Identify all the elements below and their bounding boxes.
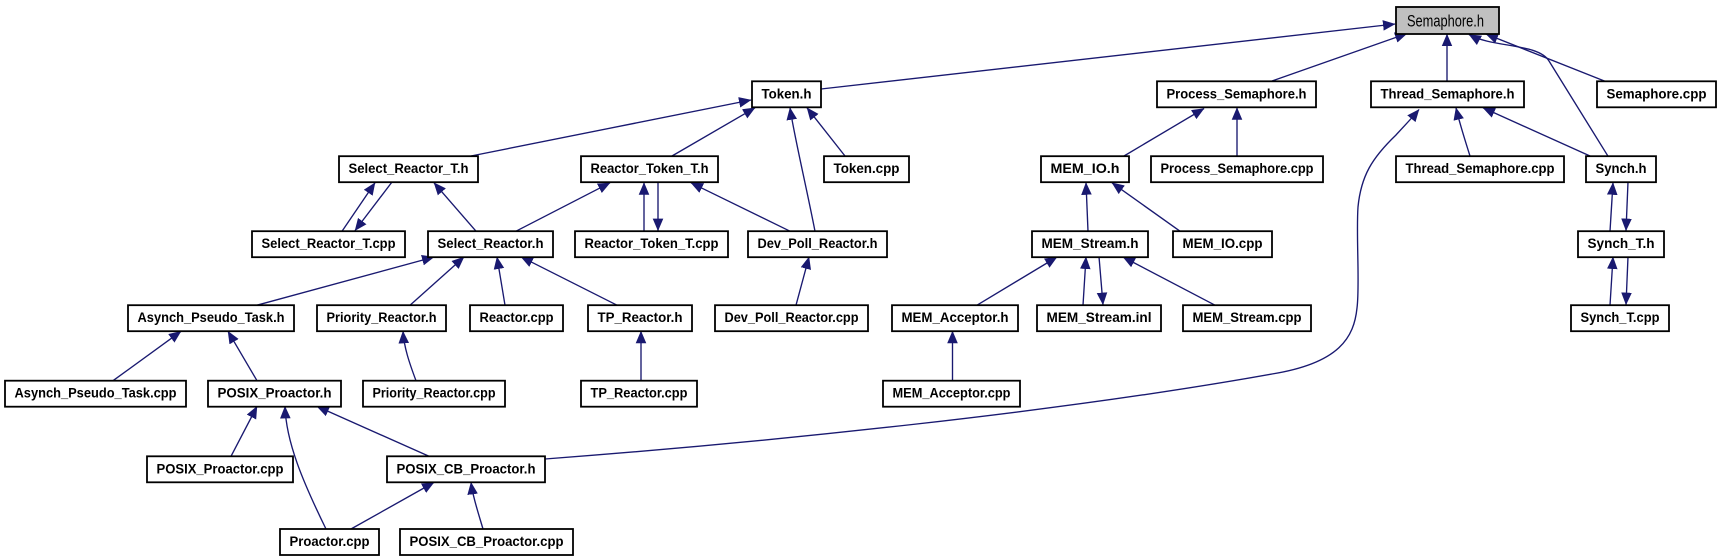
node MEM_Stream.h [1032, 231, 1148, 257]
edge MEM_Stream.inl -> MEM_Stream.h [1083, 257, 1086, 305]
node Token.cpp [824, 156, 909, 182]
node Asynch_Pseudo_Task.h [128, 305, 294, 331]
edge MEM_IO.h -> Process_Semaphore.h [1124, 109, 1204, 157]
node Priority_Reactor.h [317, 305, 446, 331]
edge Select_Reactor.h -> Select_Reactor_T.h [434, 183, 476, 231]
edge Semaphore.cpp -> Semaphore.h [1486, 34, 1605, 81]
svg-text:Reactor_Token_T.h: Reactor_Token_T.h [591, 161, 709, 176]
svg-text:Semaphore.cpp: Semaphore.cpp [1607, 86, 1707, 101]
edge Process_Semaphore.cpp -> Process_Semaphore.h [1236, 108, 1238, 156]
edge Thread_Semaphore.cpp -> Thread_Semaphore.h [1456, 108, 1470, 156]
node MEM_Acceptor.h [892, 305, 1018, 331]
edge Select_Reactor.h -> Reactor_Token_T.h [516, 183, 610, 231]
edge POSIX_CB_Proactor.h -> Thread_Semaphore.h [545, 110, 1419, 460]
svg-text:Token.cpp: Token.cpp [834, 161, 900, 176]
node Thread_Semaphore.cpp [1396, 156, 1564, 182]
edge Token.h -> Semaphore.h [821, 24, 1395, 89]
node TP_Reactor.h [588, 305, 692, 331]
node Reactor.cpp [470, 305, 563, 331]
edge Reactor_Token_T.h -> Token.h [672, 108, 755, 156]
svg-text:MEM_Acceptor.h: MEM_Acceptor.h [902, 310, 1009, 325]
svg-text:Proactor.cpp: Proactor.cpp [290, 534, 370, 549]
node Semaphore.cpp [1597, 81, 1716, 107]
edge Synch.h -> Semaphore.h [1469, 35, 1608, 157]
svg-text:MEM_Acceptor.cpp: MEM_Acceptor.cpp [893, 386, 1011, 401]
edge Reactor_Token_T.h -> Reactor_Token_T.cpp [657, 182, 659, 231]
edge MEM_Stream.h -> MEM_Stream.inl [1099, 257, 1103, 305]
svg-text:Synch.h: Synch.h [1596, 161, 1647, 176]
node POSIX_CB_Proactor.cpp [400, 529, 573, 555]
svg-text:Process_Semaphore.h: Process_Semaphore.h [1167, 86, 1307, 101]
node POSIX_CB_Proactor.h [387, 456, 545, 482]
node Reactor_Token_T.cpp [575, 231, 728, 257]
edge Process_Semaphore.h -> Semaphore.h [1272, 34, 1407, 82]
node Thread_Semaphore.h [1371, 81, 1524, 107]
svg-text:MEM_Stream.cpp: MEM_Stream.cpp [1193, 310, 1302, 325]
svg-text:Select_Reactor.h: Select_Reactor.h [438, 236, 544, 251]
edge MEM_Acceptor.cpp -> MEM_Acceptor.h [952, 331, 954, 380]
node POSIX_Proactor.cpp [147, 456, 293, 482]
edge Reactor_Token_T.cpp -> Reactor_Token_T.h [643, 183, 645, 231]
edge POSIX_Proactor.cpp -> POSIX_Proactor.h [231, 406, 257, 456]
edge Proactor.cpp -> POSIX_CB_Proactor.h [351, 482, 434, 529]
edge Asynch_Pseudo_Task.cpp -> Asynch_Pseudo_Task.h [113, 331, 181, 380]
svg-text:POSIX_CB_Proactor.cpp: POSIX_CB_Proactor.cpp [410, 534, 564, 549]
edge Synch_T.h -> Synch.h [1610, 183, 1613, 231]
edge MEM_Stream.h -> MEM_IO.h [1086, 183, 1088, 231]
node Process_Semaphore.cpp [1151, 156, 1323, 182]
svg-text:Select_Reactor_T.cpp: Select_Reactor_T.cpp [262, 236, 396, 251]
svg-text:POSIX_Proactor.h: POSIX_Proactor.h [218, 386, 332, 401]
svg-text:Thread_Semaphore.h: Thread_Semaphore.h [1381, 86, 1515, 101]
node POSIX_Proactor.h [208, 381, 341, 407]
node Asynch_Pseudo_Task.cpp [5, 381, 186, 407]
node MEM_IO.cpp [1173, 231, 1272, 257]
edge Priority_Reactor.h -> Select_Reactor.h [410, 257, 464, 305]
edge Priority_Reactor.cpp -> Priority_Reactor.h [403, 331, 416, 380]
edge Synch.h -> Synch_T.h [1626, 182, 1628, 231]
node Synch.h [1586, 156, 1656, 182]
svg-text:POSIX_CB_Proactor.h: POSIX_CB_Proactor.h [397, 461, 536, 476]
node Select_Reactor_T.h [339, 156, 478, 182]
svg-text:Asynch_Pseudo_Task.cpp: Asynch_Pseudo_Task.cpp [15, 386, 177, 401]
node Synch_T.cpp [1571, 305, 1669, 331]
edge Select_Reactor_T.h -> Token.h [471, 100, 751, 156]
node Priority_Reactor.cpp [363, 381, 505, 407]
svg-text:Dev_Poll_Reactor.h: Dev_Poll_Reactor.h [758, 236, 878, 251]
svg-text:Synch_T.cpp: Synch_T.cpp [1581, 310, 1660, 325]
node Select_Reactor.h [428, 231, 553, 257]
svg-text:MEM_IO.cpp: MEM_IO.cpp [1183, 236, 1263, 251]
edge Thread_Semaphore.h -> Semaphore.h [1446, 34, 1448, 81]
node Dev_Poll_Reactor.cpp [715, 305, 868, 331]
svg-text:Synch_T.h: Synch_T.h [1588, 236, 1655, 251]
edge Dev_Poll_Reactor.h -> Token.h [790, 108, 815, 231]
edge TP_Reactor.cpp -> TP_Reactor.h [640, 331, 642, 380]
edge Dev_Poll_Reactor.cpp -> Dev_Poll_Reactor.h [796, 257, 809, 305]
svg-text:Dev_Poll_Reactor.cpp: Dev_Poll_Reactor.cpp [725, 310, 859, 325]
edge POSIX_CB_Proactor.h -> POSIX_Proactor.h [317, 406, 429, 456]
node Semaphore.h [1396, 7, 1499, 34]
node TP_Reactor.cpp [581, 381, 697, 407]
edge Token.cpp -> Token.h [807, 108, 845, 156]
svg-text:POSIX_Proactor.cpp: POSIX_Proactor.cpp [157, 461, 284, 476]
node Reactor_Token_T.h [581, 156, 718, 182]
node MEM_Stream.inl [1037, 305, 1161, 331]
edge Select_Reactor_T.cpp -> Select_Reactor_T.h [342, 183, 375, 231]
node Synch_T.h [1578, 231, 1664, 257]
edge Dev_Poll_Reactor.h -> Reactor_Token_T.h [691, 183, 790, 231]
edge MEM_Acceptor.h -> MEM_Stream.h [977, 257, 1057, 305]
edge Synch.h -> Thread_Semaphore.h [1483, 108, 1590, 156]
edge Reactor.cpp -> Select_Reactor.h [497, 257, 505, 305]
svg-text:MEM_Stream.h: MEM_Stream.h [1042, 236, 1139, 251]
svg-text:TP_Reactor.h: TP_Reactor.h [598, 310, 683, 325]
svg-text:Asynch_Pseudo_Task.h: Asynch_Pseudo_Task.h [138, 310, 285, 325]
edge Synch_T.cpp -> Synch_T.h [1610, 257, 1613, 305]
node MEM_Acceptor.cpp [883, 381, 1020, 407]
node Token.h [752, 81, 821, 107]
edge Select_Reactor_T.h -> Select_Reactor_T.cpp [355, 182, 392, 231]
edge Proactor.cpp -> POSIX_Proactor.h [285, 406, 326, 529]
node Dev_Poll_Reactor.h [748, 231, 887, 257]
node MEM_IO.h [1041, 156, 1129, 182]
svg-text:Priority_Reactor.h: Priority_Reactor.h [327, 310, 437, 325]
svg-text:Select_Reactor_T.h: Select_Reactor_T.h [349, 161, 469, 176]
node MEM_Stream.cpp [1183, 305, 1311, 331]
svg-text:MEM_IO.h: MEM_IO.h [1051, 161, 1120, 176]
svg-text:Reactor.cpp: Reactor.cpp [480, 310, 554, 325]
edge MEM_Stream.cpp -> MEM_Stream.h [1123, 257, 1215, 305]
node Proactor.cpp [280, 529, 379, 555]
edge POSIX_CB_Proactor.cpp -> POSIX_CB_Proactor.h [471, 482, 483, 529]
svg-text:MEM_Stream.inl: MEM_Stream.inl [1047, 310, 1152, 325]
svg-text:Reactor_Token_T.cpp: Reactor_Token_T.cpp [585, 236, 719, 251]
edge Asynch_Pseudo_Task.h -> Select_Reactor.h [257, 257, 434, 305]
edge TP_Reactor.h -> Select_Reactor.h [521, 257, 617, 305]
svg-text:Token.h: Token.h [762, 86, 812, 101]
edge Synch_T.h -> Synch_T.cpp [1626, 257, 1628, 305]
edge POSIX_Proactor.h -> Asynch_Pseudo_Task.h [228, 331, 257, 380]
node Select_Reactor_T.cpp [252, 231, 405, 257]
svg-text:TP_Reactor.cpp: TP_Reactor.cpp [591, 386, 688, 401]
svg-text:Thread_Semaphore.cpp: Thread_Semaphore.cpp [1406, 161, 1555, 176]
svg-text:Priority_Reactor.cpp: Priority_Reactor.cpp [373, 386, 496, 401]
svg-text:Semaphore.h: Semaphore.h [1407, 12, 1484, 31]
edge MEM_IO.cpp -> MEM_IO.h [1112, 183, 1180, 231]
node Process_Semaphore.h [1157, 81, 1316, 107]
svg-text:Process_Semaphore.cpp: Process_Semaphore.cpp [1161, 161, 1314, 176]
